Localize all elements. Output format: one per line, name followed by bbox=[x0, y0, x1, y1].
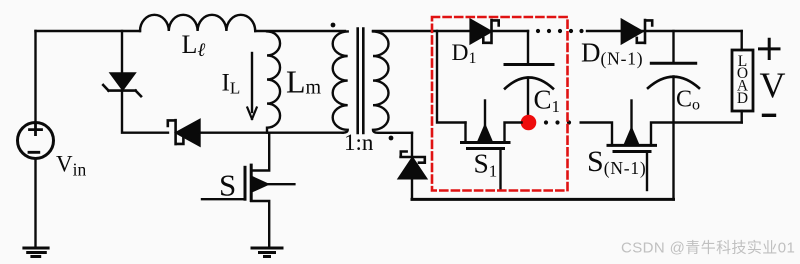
ground (switch S) bbox=[252, 248, 282, 257]
dotted continuation top bbox=[536, 29, 584, 33]
wire top rail left (Vin to leakage inductor) bbox=[36, 30, 141, 32]
svg-text:D: D bbox=[737, 90, 748, 107]
secondary polarity dot bbox=[389, 136, 394, 141]
wire D1 anode branch down bbox=[437, 31, 466, 123]
transistor S1 bbox=[462, 101, 522, 191]
wire secondary top to D1 bbox=[373, 30, 471, 32]
svg-text:D(N-1): D(N-1) bbox=[581, 38, 643, 69]
zener diode (clamp) bbox=[103, 73, 141, 96]
capacitor C1 bbox=[505, 31, 553, 116]
diode secondary schottky (pointing up) bbox=[399, 133, 426, 200]
svg-text:D1: D1 bbox=[452, 40, 477, 67]
svg-text:S1: S1 bbox=[474, 147, 498, 180]
source Vin bbox=[18, 123, 54, 159]
wire top rail (Ll to transformer primary) bbox=[255, 30, 345, 32]
wire zener branch top bbox=[121, 31, 123, 73]
inductor Lm (magnetizing) bbox=[267, 31, 280, 132]
node dot red (C1 bottom node) bbox=[521, 115, 537, 131]
current arrow IL bbox=[247, 53, 256, 119]
diode clamp (pointing left) bbox=[168, 120, 200, 145]
dotted continuation node bbox=[544, 120, 571, 124]
transistor S (main switch) bbox=[202, 133, 294, 247]
red dashed box (cell 1) bbox=[432, 17, 568, 191]
transistor SN-1 bbox=[581, 101, 742, 191]
svg-text:Lm: Lm bbox=[286, 64, 322, 100]
svg-text:Co: Co bbox=[676, 87, 700, 114]
wire Vin positive lead bbox=[34, 31, 36, 122]
diode DN-1 bbox=[622, 20, 652, 43]
wire zener to clamp bottom bbox=[122, 91, 168, 133]
svg-text:V: V bbox=[760, 65, 786, 105]
wire clamp bottom to primary bbox=[200, 131, 344, 133]
svg-text:CSDN @青牛科技实业01: CSDN @青牛科技实业01 bbox=[621, 240, 795, 257]
diode D1 bbox=[471, 20, 528, 43]
label - output bbox=[764, 114, 775, 117]
primary polarity dot bbox=[331, 23, 336, 28]
svg-text:Lℓ: Lℓ bbox=[182, 30, 206, 61]
svg-text:C1: C1 bbox=[534, 84, 561, 116]
transformer primary winding bbox=[333, 31, 348, 132]
bottom rail (secondary ground return) bbox=[412, 198, 674, 201]
ground (Vin) bbox=[24, 248, 48, 257]
svg-text:Vin: Vin bbox=[56, 152, 86, 180]
svg-text:S: S bbox=[219, 168, 236, 203]
capacitor Co bbox=[648, 31, 699, 199]
svg-text:S(N-1): S(N-1) bbox=[587, 145, 647, 178]
load resistor box bbox=[732, 31, 753, 123]
inductor Ll (leakage) bbox=[140, 15, 255, 31]
transformer core bbox=[358, 29, 364, 134]
wire top rail cell 2 bbox=[587, 30, 742, 32]
label + output bbox=[760, 39, 780, 58]
svg-text:1:n: 1:n bbox=[344, 130, 374, 155]
transformer secondary winding bbox=[373, 31, 412, 132]
wire Vin negative lead bbox=[34, 159, 36, 248]
svg-text:IL: IL bbox=[222, 70, 241, 98]
